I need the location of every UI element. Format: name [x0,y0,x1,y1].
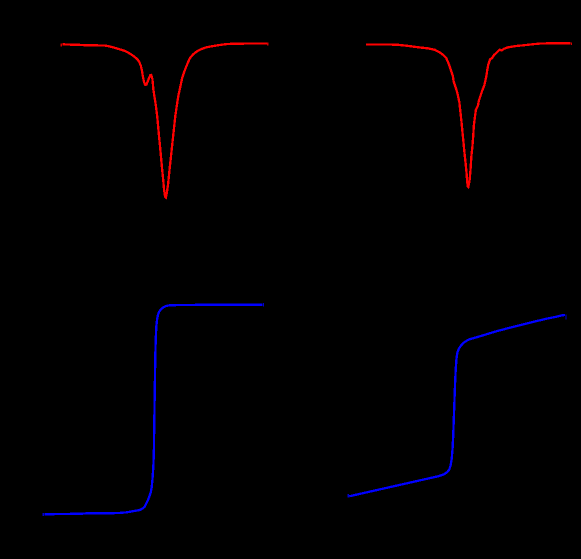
start tick of right blue step curve [348,494,349,497]
end tick of right red absorption curve [571,43,572,46]
start tick of left red absorption curve [61,44,62,47]
right blue step (dispersion/integral) curve 2 [349,315,565,496]
right red absorption curve (spectrum 2) [366,43,571,187]
end tick of left red absorption curve [267,43,268,46]
left blue step (dispersion/integral) curve 1 [45,305,263,515]
start tick of left blue step curve [43,513,44,516]
end tick of left blue step curve [263,303,264,306]
left red absorption curve (spectrum 1) [63,44,267,198]
end tick of right blue step curve [565,314,566,319]
